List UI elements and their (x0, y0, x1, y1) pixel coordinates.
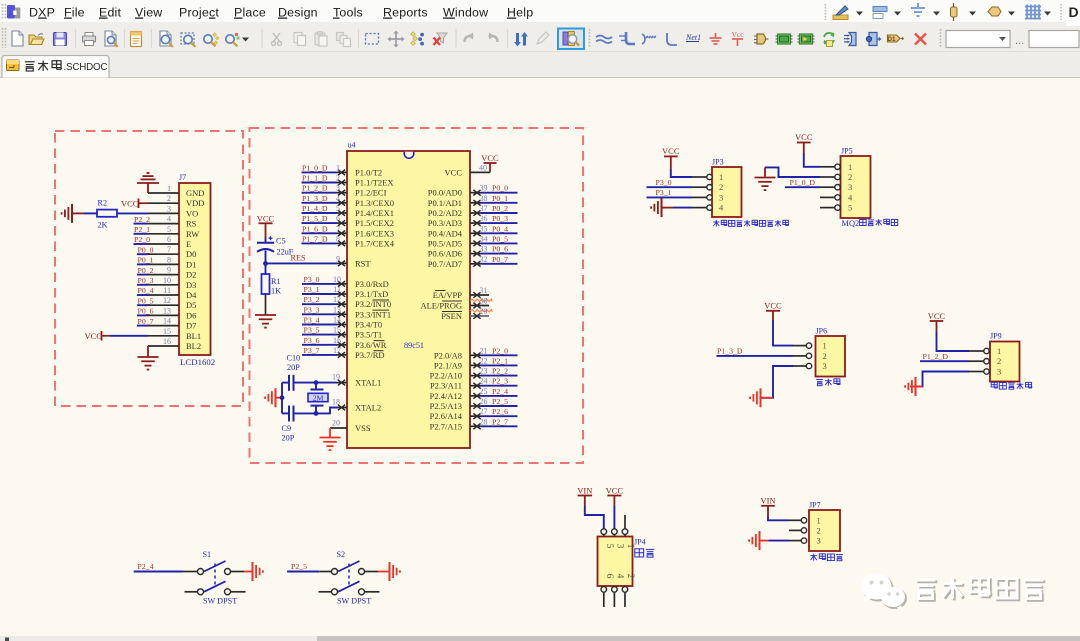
svg-text:18: 18 (332, 398, 340, 407)
ground (JP3 pin4) (651, 198, 692, 217)
svg-text:Help: Help (507, 6, 533, 20)
svg-text:21: 21 (480, 346, 488, 355)
U4 pin 8 wire + net label P1_7_D (302, 234, 348, 246)
wire + net label P1_2_D (JP9 pin2) (920, 352, 969, 361)
svg-text:S2: S2 (337, 550, 346, 559)
svg-text:P2_0: P2_0 (492, 346, 508, 355)
svg-text:1: 1 (719, 172, 723, 182)
svg-text:D1: D1 (186, 259, 196, 269)
svg-text:3: 3 (848, 182, 852, 192)
svg-text:JP6: JP6 (816, 327, 828, 336)
U4 pin 1 wire + net label P1_0_D (302, 163, 348, 175)
svg-text:P2_5: P2_5 (492, 397, 508, 406)
svg-text:P3_0: P3_0 (304, 275, 320, 284)
svg-text:40: 40 (479, 164, 487, 173)
wire to U4 pin 18 XTAL2 (316, 398, 347, 414)
J7 pins 1-16 (148, 184, 179, 346)
svg-text:P1_1_D: P1_1_D (302, 174, 328, 183)
svg-text:89c51: 89c51 (404, 341, 424, 350)
svg-text:Reports: Reports (383, 6, 428, 20)
svg-text:36: 36 (480, 214, 488, 223)
svg-text:VCC: VCC (662, 146, 680, 156)
ground below R1 (255, 315, 276, 328)
svg-text:4: 4 (167, 215, 171, 224)
svg-text:SW DPST: SW DPST (337, 596, 371, 605)
svg-text:30: 30 (480, 297, 488, 306)
svg-text:P1_2_D: P1_2_D (302, 184, 328, 193)
svg-text:8: 8 (336, 234, 340, 243)
svg-text:SW DPST: SW DPST (203, 596, 237, 605)
svg-text:VCC: VCC (764, 300, 782, 310)
ground (left of R2) (62, 204, 84, 223)
svg-text:P2.5/A13: P2.5/A13 (430, 401, 462, 411)
svg-text:P2_3: P2_3 (492, 377, 508, 386)
svg-text:P2_2: P2_2 (134, 215, 150, 224)
svg-text:4: 4 (336, 194, 340, 203)
U4 pin 16 wire + net label P3_6 (302, 336, 347, 348)
svg-text:J7: J7 (179, 173, 186, 182)
net label P2_5 + wire (287, 562, 319, 572)
power port VCC (JP4) (606, 485, 624, 529)
svg-text:35: 35 (480, 224, 488, 233)
svg-text:DXP: DXP (29, 6, 55, 20)
svg-text:13: 13 (333, 305, 341, 314)
svg-text:P0.3/AD3: P0.3/AD3 (428, 218, 462, 228)
svg-text:P0_7: P0_7 (492, 255, 508, 264)
wire + net label P3_1 (JP3 pin3) (647, 188, 693, 197)
svg-text:9: 9 (167, 266, 171, 275)
svg-text:22uF: 22uF (277, 248, 294, 257)
DXP application logo (7, 5, 20, 19)
label MQ2烟雾传感器 (842, 219, 898, 228)
svg-text:20P: 20P (282, 434, 295, 443)
svg-text:P0_0: P0_0 (138, 245, 154, 254)
wire from R2 to J7 pin3 (VO) (84, 212, 148, 214)
svg-text:MQ2: MQ2 (842, 219, 860, 228)
connector JP5 body (841, 147, 871, 219)
net label P0_5 at J7 pin 12 (137, 296, 154, 305)
svg-text:P1_7_D: P1_7_D (302, 234, 328, 243)
net label P0_3 at J7 pin 10 (137, 276, 154, 285)
svg-text:3: 3 (614, 544, 624, 549)
svg-text:VCC: VCC (445, 167, 463, 177)
svg-text:BL1: BL1 (186, 331, 201, 341)
label 蜂鸣器 (816, 378, 840, 385)
svg-text:P3_0: P3_0 (656, 178, 672, 187)
svg-text:P1_0_D: P1_0_D (790, 178, 816, 187)
U4 pin 3 wire + net label P1_2_D (302, 184, 348, 196)
svg-text:5: 5 (848, 203, 852, 213)
svg-text:19: 19 (332, 373, 340, 382)
svg-text:P3.1/TxD: P3.1/TxD (355, 289, 388, 299)
svg-text:37: 37 (480, 204, 488, 213)
svg-text:28: 28 (480, 417, 488, 426)
svg-text:VCC: VCC (481, 153, 499, 163)
U4 pin 34 wire + net label P0_5 (470, 234, 518, 246)
svg-text:VDD: VDD (186, 198, 204, 208)
U4 pin 29 PSEN stub with error squiggle (470, 307, 492, 319)
svg-text:Project: Project (179, 6, 219, 20)
junction node (RES) (263, 261, 268, 266)
net label P0_0 at J7 pin 7 (137, 245, 154, 254)
U4 pin 6 wire + net label P1_5_D (302, 214, 348, 226)
svg-text:3: 3 (719, 192, 723, 202)
svg-text:RW: RW (186, 229, 199, 239)
svg-text:Net1: Net1 (685, 33, 701, 42)
switch S1 SW-DPST (183, 550, 246, 605)
power port VCC (JP9 pin1) (928, 311, 969, 351)
net label P0_1 at J7 pin 8 (137, 256, 154, 265)
svg-text:VCC: VCC (928, 311, 946, 321)
main toolbar (3, 28, 1080, 49)
svg-text:P3.6/WR: P3.6/WR (355, 340, 387, 350)
svg-text:P1_5_D: P1_5_D (302, 214, 328, 223)
svg-text:D:: D: (1069, 4, 1080, 20)
svg-text:P3.7/RD: P3.7/RD (355, 350, 385, 360)
svg-text:P3_3: P3_3 (304, 305, 320, 314)
svg-text:2: 2 (997, 356, 1001, 366)
svg-text:.SCHDOC: .SCHDOC (64, 62, 108, 73)
svg-text:25: 25 (480, 387, 488, 396)
svg-text:P3.2/INT0: P3.2/INT0 (355, 299, 391, 309)
U4 pin 2 wire + net label P1_1_D (302, 174, 348, 186)
svg-text:P2.4/A12: P2.4/A12 (430, 391, 462, 401)
U4 pin 39 wire + net label P0_0 (470, 184, 518, 196)
svg-text:P3_6: P3_6 (304, 336, 320, 345)
svg-text:39: 39 (480, 184, 488, 193)
svg-text:1K: 1K (271, 287, 281, 296)
svg-text:P3.3/INT1: P3.3/INT1 (355, 309, 391, 319)
svg-text:LCD1602: LCD1602 (180, 357, 215, 367)
svg-text:P2_0: P2_0 (134, 235, 150, 244)
JP4 top pins (601, 515, 628, 537)
svg-text:4: 4 (614, 574, 624, 579)
U4 pin 38 wire + net label P0_1 (470, 194, 518, 206)
svg-text:P1.1/T2EX: P1.1/T2EX (355, 178, 394, 188)
utility toolbar (drawing tools) (826, 0, 1080, 26)
svg-text:S1: S1 (203, 550, 212, 559)
horizontal scrollbar (0, 636, 1080, 641)
svg-text:15: 15 (163, 327, 171, 336)
svg-text:3: 3 (817, 536, 821, 546)
svg-text:VIN: VIN (577, 485, 592, 495)
svg-text:2: 2 (336, 174, 340, 183)
svg-text:P0_4: P0_4 (492, 224, 508, 233)
svg-text:P0.4/AD4: P0.4/AD4 (428, 228, 463, 238)
net label P2_2 at J7 pin 4 (134, 215, 151, 224)
svg-text:P2.0/A8: P2.0/A8 (434, 350, 462, 360)
svg-text:...: ... (1015, 35, 1024, 47)
svg-text:P3_5: P3_5 (304, 326, 320, 335)
dashed selection box around LCD module (55, 131, 243, 406)
wire + net label P3_0 (JP3 pin2) (647, 178, 693, 187)
svg-text:P2.7/A15: P2.7/A15 (430, 421, 462, 431)
svg-text:10: 10 (163, 276, 171, 285)
svg-text:2: 2 (167, 194, 171, 203)
svg-text:P3_4: P3_4 (304, 316, 320, 325)
ground at J7 pin 1 (137, 173, 159, 193)
resistor R2 2K (97, 199, 117, 230)
U4 pin 40 VCC wire + power port (470, 153, 499, 173)
power port VCC (JP5 pin1) (795, 132, 820, 167)
svg-text:JP9: JP9 (990, 332, 1002, 341)
svg-text:Tools: Tools (333, 6, 363, 20)
svg-text:P0_4: P0_4 (138, 286, 154, 295)
svg-text:11: 11 (333, 285, 341, 294)
svg-text:7: 7 (167, 245, 171, 254)
svg-text:1: 1 (823, 341, 827, 351)
ground (switch) (244, 562, 263, 581)
svg-text:20P: 20P (287, 363, 300, 372)
svg-text:D1: D1 (887, 36, 896, 43)
svg-text:PSEN: PSEN (441, 311, 462, 321)
svg-text:P0_5: P0_5 (492, 234, 508, 243)
svg-text:D6: D6 (186, 310, 196, 320)
watermark WeChat logo 学霸单片机 (862, 574, 1046, 611)
U4 pin 36 wire + net label P0_3 (470, 214, 518, 226)
label 串口（语音播放模块） (713, 220, 788, 227)
svg-text:P0_5: P0_5 (138, 296, 154, 305)
power port VCC (JP3 pin1) (662, 146, 692, 177)
svg-text:D0: D0 (186, 249, 196, 259)
svg-text:P3_1: P3_1 (304, 285, 320, 294)
svg-text:VIN: VIN (760, 495, 775, 505)
svg-text:P2.6/A14: P2.6/A14 (430, 411, 463, 421)
U4 pin 4 wire + net label P1_3_D (302, 194, 348, 206)
capacitor C10 20P (282, 354, 316, 391)
svg-text:Vcc: Vcc (731, 30, 744, 39)
svg-text:38: 38 (480, 194, 488, 203)
svg-text:24: 24 (480, 377, 488, 386)
svg-text:P1_0_D: P1_0_D (302, 163, 328, 172)
U4 pin 31 EA/VPP stub (470, 286, 489, 298)
U4 pin 20 VSS wire + ground (320, 419, 348, 451)
svg-text:P2.2/A10: P2.2/A10 (430, 371, 462, 381)
svg-text:1: 1 (817, 515, 821, 525)
svg-text:VCC: VCC (257, 213, 275, 223)
svg-text:P1.2/ECI: P1.2/ECI (355, 188, 387, 198)
left rail connecting C10/C9 (281, 383, 283, 414)
menu items (29, 6, 533, 20)
net label P0_4 at J7 pin 11 (137, 286, 154, 295)
document tab 原理图.SCHDOC (2, 56, 109, 78)
resistor R1 1K (262, 263, 282, 314)
svg-text:Edit: Edit (99, 6, 122, 20)
svg-text:R1: R1 (271, 277, 281, 286)
svg-text:C10: C10 (287, 354, 301, 363)
svg-text:D7: D7 (186, 321, 196, 331)
svg-text:3: 3 (167, 204, 171, 213)
svg-text:Place: Place (234, 6, 266, 20)
svg-text:EA/VPP: EA/VPP (433, 290, 463, 300)
ground (JP9 pin3) (905, 372, 969, 397)
svg-text:P0_3: P0_3 (138, 276, 154, 285)
svg-text:Window: Window (443, 6, 488, 20)
svg-text:JP3: JP3 (712, 158, 724, 167)
capacitor C5 22uF (polarized) (257, 236, 294, 263)
svg-text:1: 1 (848, 162, 852, 172)
U4 pin 12 wire + net label P3_2 (302, 295, 347, 307)
U4 pin 25 wire + net label P2_4 (470, 387, 518, 399)
svg-text:29: 29 (480, 307, 488, 316)
connector J7 LCD1602 body (179, 173, 215, 367)
svg-text:D5: D5 (186, 300, 196, 310)
svg-text:P2.1/A9: P2.1/A9 (434, 360, 462, 370)
svg-text:P0_6: P0_6 (492, 245, 508, 254)
svg-text:P0_3: P0_3 (492, 214, 508, 223)
U4 pin 33 wire + net label P0_6 (470, 245, 518, 257)
svg-text:VO: VO (186, 208, 198, 218)
svg-text:P1.0/T2: P1.0/T2 (355, 167, 382, 177)
svg-text:VCC: VCC (121, 199, 139, 209)
svg-text:P2_4: P2_4 (138, 562, 154, 571)
label 电源接口 (810, 553, 843, 560)
power port VCC at J7 pin 15 (BL1) (85, 331, 149, 341)
ground wire (JP5 pin2) (755, 167, 821, 190)
svg-text:6: 6 (167, 235, 171, 244)
U4 pin 35 wire + net label P0_4 (470, 224, 518, 236)
label 继电器风扇 (991, 382, 1032, 389)
svg-text:P0_7: P0_7 (138, 317, 154, 326)
svg-text:View: View (135, 6, 162, 20)
U4 pin 5 wire + net label P1_4_D (302, 204, 348, 216)
junction nodes (crystal) (314, 380, 319, 416)
svg-text:P1.3/CEX0: P1.3/CEX0 (355, 198, 394, 208)
net label P0_6 at J7 pin 13 (137, 307, 154, 316)
svg-text:RST: RST (355, 258, 371, 268)
power port VIN (JP4) (577, 485, 604, 529)
JP5 pins (820, 164, 840, 210)
svg-text:P2_7: P2_7 (492, 417, 508, 426)
svg-text:16: 16 (333, 336, 341, 345)
svg-text:BL2: BL2 (186, 341, 201, 351)
svg-text:3: 3 (997, 367, 1001, 377)
svg-text:27: 27 (480, 407, 488, 416)
svg-text:22: 22 (480, 356, 488, 365)
svg-text:P2_1: P2_1 (134, 225, 150, 234)
svg-text:P2_5: P2_5 (291, 562, 307, 571)
svg-text:16: 16 (163, 337, 171, 346)
capacitor C9 20P (282, 406, 317, 443)
JP6 pins (793, 343, 812, 369)
svg-text:3: 3 (336, 184, 340, 193)
JP7 pins (789, 518, 807, 544)
ground (crystal) (265, 388, 284, 407)
svg-text:RS: RS (186, 219, 197, 229)
svg-text:32: 32 (480, 255, 488, 264)
svg-text:5: 5 (336, 204, 340, 213)
svg-text:P3.0/RxD: P3.0/RxD (355, 279, 389, 289)
U4 pin 32 wire + net label P0_7 (470, 255, 518, 267)
svg-text:12: 12 (163, 296, 171, 305)
svg-text:7: 7 (336, 224, 340, 233)
connector JP6 body (816, 327, 846, 377)
net label P0_2 at J7 pin 9 (137, 266, 154, 275)
JP4 bottom pins (601, 586, 628, 607)
IC U4 89c51 body (347, 141, 470, 449)
power port VCC (JP6 pin1) (764, 300, 793, 345)
svg-text:P1_2_D: P1_2_D (923, 352, 949, 361)
svg-text:13: 13 (163, 306, 171, 315)
svg-text:1: 1 (167, 184, 171, 193)
svg-text:1: 1 (997, 346, 1001, 356)
connector JP7 body (809, 501, 840, 552)
U4 pin 24 wire + net label P2_3 (470, 377, 518, 389)
crystal Y1 2M (308, 383, 328, 414)
svg-text:D3: D3 (186, 280, 196, 290)
U4 pin 11 wire + net label P3_1 (302, 285, 347, 297)
svg-text:2: 2 (848, 172, 852, 182)
svg-text:P0.1/AD1: P0.1/AD1 (428, 198, 462, 208)
U4 pin 10 wire + net label P3_0 (302, 275, 347, 287)
svg-text:P1_4_D: P1_4_D (302, 204, 328, 213)
wire + net label P1_3_D (JP6 pin2) (717, 346, 794, 356)
ground at J7 pin 16 (BL2) (138, 346, 159, 370)
svg-text:5: 5 (604, 544, 614, 549)
svg-text:2: 2 (823, 351, 827, 361)
U4 pin 15 wire + net label P3_5 (302, 326, 347, 338)
net label P0_7 at J7 pin 14 (137, 317, 154, 326)
svg-text:P0.5/AD5: P0.5/AD5 (428, 238, 462, 248)
connector JP4 body (switch) (598, 537, 646, 587)
U4 pin 26 wire + net label P2_5 (470, 397, 518, 409)
wire + net label P1_0_D (JP5 pin3) (785, 178, 820, 187)
svg-text:P1.4/CEX1: P1.4/CEX1 (355, 208, 394, 218)
svg-text:11: 11 (163, 286, 171, 295)
U4 pin 30 ALE/PROG stub with error squiggle (470, 297, 492, 309)
svg-text:JP5: JP5 (841, 147, 853, 156)
svg-text:P2_6: P2_6 (492, 407, 508, 416)
svg-text:34: 34 (480, 234, 488, 243)
U4 left pin names (355, 167, 395, 433)
ground (switch) (378, 562, 400, 581)
svg-text:2: 2 (719, 182, 723, 192)
connector JP9 body (990, 332, 1020, 382)
svg-text:D2: D2 (186, 270, 196, 280)
svg-text:P1_3_D: P1_3_D (717, 346, 743, 355)
svg-text:P2.3/A11: P2.3/A11 (430, 381, 462, 391)
svg-text:6: 6 (336, 214, 340, 223)
svg-text:P3_7: P3_7 (304, 346, 320, 355)
svg-text:C9: C9 (282, 424, 292, 433)
svg-text:E: E (186, 239, 191, 249)
switch S2 SW-DPST (319, 550, 380, 605)
ground (JP6 pin3) (750, 366, 793, 407)
svg-text:8: 8 (167, 255, 171, 264)
svg-text:12: 12 (333, 295, 341, 304)
svg-text:D4: D4 (186, 290, 197, 300)
svg-text:GND: GND (186, 188, 204, 198)
svg-text:2: 2 (817, 525, 821, 535)
U4 pin 14 wire + net label P3_4 (302, 316, 347, 328)
svg-text:14: 14 (163, 317, 171, 326)
svg-text:23: 23 (480, 367, 488, 376)
svg-text:XTAL2: XTAL2 (355, 403, 381, 413)
svg-text:ALE/PROG: ALE/PROG (420, 301, 462, 311)
svg-text:P1.6/CEX3: P1.6/CEX3 (355, 228, 394, 238)
svg-text:9: 9 (336, 254, 340, 263)
svg-text:14: 14 (333, 316, 341, 325)
svg-text:P0_2: P0_2 (492, 204, 508, 213)
svg-text:2K: 2K (98, 221, 108, 230)
wire to U4 pin 19 XTAL1 (316, 373, 347, 386)
power port VIN (JP7 pin1) (760, 495, 789, 520)
U4 pin 13 wire + net label P3_3 (302, 305, 347, 317)
connector JP3 body (712, 158, 742, 218)
svg-text:P1_3_D: P1_3_D (302, 194, 328, 203)
U4 pin 17 wire + net label P3_7 (302, 346, 347, 358)
svg-text:2M: 2M (313, 394, 324, 403)
